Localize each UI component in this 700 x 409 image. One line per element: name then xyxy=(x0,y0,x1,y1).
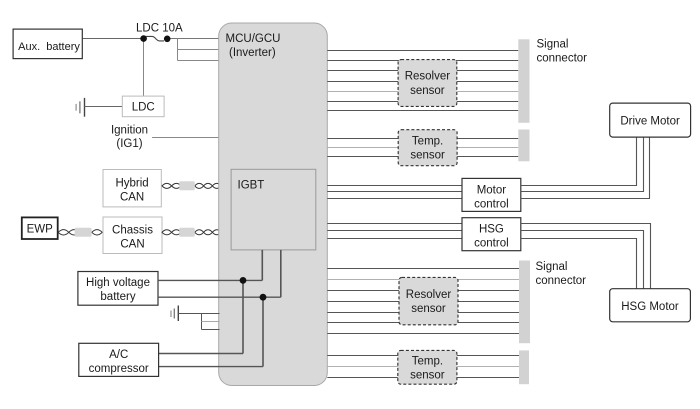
svg-text:High voltage: High voltage xyxy=(86,277,150,289)
twisted pair EWP to Chassis CAN xyxy=(58,230,102,235)
wire ground fork bottom xyxy=(202,329,220,331)
compressor A/C xyxy=(79,343,159,376)
svg-text:Aux. battery: Aux. battery xyxy=(18,41,80,53)
converter LDC xyxy=(122,96,164,117)
svg-text:connector: connector xyxy=(536,275,587,287)
junction dot fuse left xyxy=(140,35,147,42)
resolver sensor 1 xyxy=(398,60,457,107)
wires HSG control to HSG motor xyxy=(521,224,651,289)
temp sensor 1 xyxy=(398,130,457,166)
wires temp2 group xyxy=(327,356,519,378)
motor M1 Drive Motor xyxy=(610,103,691,137)
twisted pair Chassis CAN to MCU xyxy=(162,230,221,235)
svg-text:CAN: CAN xyxy=(120,239,144,251)
wire IGBT pin2 drop xyxy=(280,250,282,297)
wire HV battery line2 xyxy=(158,296,281,298)
MCU/GCU (Inverter) box U1 xyxy=(219,23,328,386)
wire AC compressor riser1 xyxy=(242,280,244,353)
ferrite EWP pair xyxy=(75,228,92,237)
wire vertical tap x177 xyxy=(177,39,179,61)
node Hybrid CAN xyxy=(103,170,161,207)
battery B1 Aux. battery xyxy=(13,29,82,58)
node Ignition (IG1) xyxy=(111,125,148,150)
svg-text:sensor: sensor xyxy=(411,303,446,315)
svg-text:battery: battery xyxy=(100,291,135,303)
battery B2 High voltage battery xyxy=(78,272,158,306)
fuse LDC 10A xyxy=(146,36,165,41)
wire AC compressor riser2 xyxy=(262,297,264,366)
motor control unit xyxy=(462,178,521,211)
wire ground fork vertical xyxy=(201,314,203,330)
ground G2 xyxy=(171,306,178,322)
svg-text:CAN: CAN xyxy=(120,192,144,204)
wire ground fork middle xyxy=(202,321,220,323)
svg-text:Signal: Signal xyxy=(536,261,568,273)
wire fuse to MCU 12V xyxy=(167,38,219,40)
svg-text:Chassis: Chassis xyxy=(112,225,153,237)
wires MCU to HSG control xyxy=(327,224,462,239)
svg-text:control: control xyxy=(474,198,509,210)
svg-text:LDC 10A: LDC 10A xyxy=(136,23,183,35)
motor M2 HSG Motor xyxy=(610,289,691,322)
HSG control unit xyxy=(462,218,521,251)
wires resolver2 group xyxy=(327,269,519,334)
twisted pair Hybrid CAN to MCU xyxy=(162,183,221,188)
label signal connector bottom xyxy=(536,261,587,287)
svg-text:Resolver: Resolver xyxy=(406,289,452,301)
wire IGBT pin1 drop xyxy=(261,250,263,281)
junction dot fuse right xyxy=(164,36,171,43)
node Chassis CAN xyxy=(103,217,162,254)
wire AC compressor line2 xyxy=(159,366,263,368)
signal connector bar 2 xyxy=(519,261,530,344)
wires MCU to motor control xyxy=(327,186,462,199)
wire HV battery line1 xyxy=(158,279,262,281)
svg-text:HSG Motor: HSG Motor xyxy=(621,301,679,313)
svg-text:Resolver: Resolver xyxy=(405,71,451,83)
svg-text:Signal: Signal xyxy=(537,39,569,51)
wire tap branch y60.2 xyxy=(178,60,220,62)
ferrite Chassis CAN pair xyxy=(179,228,195,237)
wire ground to LDC xyxy=(85,106,123,108)
svg-text:Ignition: Ignition xyxy=(111,125,148,137)
pump EWP xyxy=(22,217,58,239)
svg-text:connector: connector xyxy=(537,53,588,65)
IGBT module xyxy=(231,169,316,250)
connector bar temp2 xyxy=(519,350,529,384)
wire fuse node down to LDC xyxy=(143,39,145,97)
wire ground G2 to MCU xyxy=(178,313,219,315)
svg-text:A/C: A/C xyxy=(109,349,128,361)
svg-text:Temp.: Temp. xyxy=(412,355,443,367)
svg-text:(IG1): (IG1) xyxy=(116,138,142,150)
wires temp1 group xyxy=(327,139,518,157)
svg-text:control: control xyxy=(474,238,509,250)
wire Aux battery to fuse xyxy=(82,38,143,40)
svg-text:Hybrid: Hybrid xyxy=(115,178,148,190)
svg-text:HSG: HSG xyxy=(479,224,504,236)
svg-text:Temp.: Temp. xyxy=(412,135,443,147)
junction dot HV line1 xyxy=(240,277,247,284)
svg-text:sensor: sensor xyxy=(410,370,445,382)
ground G1 xyxy=(76,98,84,117)
svg-text:IGBT: IGBT xyxy=(238,180,265,192)
svg-text:MCU/GCU: MCU/GCU xyxy=(226,33,281,45)
svg-text:Motor: Motor xyxy=(477,184,507,196)
svg-text:sensor: sensor xyxy=(410,85,445,97)
wire tap branch y49.6 xyxy=(178,49,220,51)
wires motor control to drive motor xyxy=(521,137,650,198)
svg-text:(Inverter): (Inverter) xyxy=(229,47,276,59)
junction dot HV line2 xyxy=(260,294,267,301)
svg-text:sensor: sensor xyxy=(410,150,445,162)
resolver sensor 2 xyxy=(399,277,458,324)
connector bar temp1 xyxy=(518,130,529,162)
wire ignition to MCU xyxy=(152,137,219,139)
svg-text:EWP: EWP xyxy=(27,224,54,236)
temp sensor 2 xyxy=(398,350,457,384)
wires resolver1 group xyxy=(327,51,518,111)
svg-text:compressor: compressor xyxy=(89,363,149,375)
label signal connector top xyxy=(537,39,588,65)
ferrite Hybrid CAN pair xyxy=(179,181,195,190)
signal connector bar 1 xyxy=(518,39,529,123)
svg-text:Drive Motor: Drive Motor xyxy=(620,115,680,127)
wire AC compressor line1 xyxy=(159,353,243,355)
svg-text:LDC: LDC xyxy=(132,102,155,114)
